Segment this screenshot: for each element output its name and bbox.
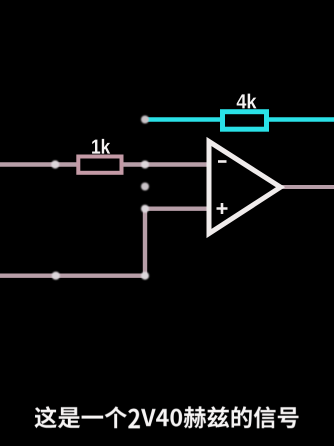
- node dot bottom left: [52, 272, 60, 280]
- 的: [254, 406, 276, 428]
- 个: [128, 409, 140, 429]
- wire: [0, 162, 208, 166]
- 2: [141, 409, 156, 426]
- node dot cyan wire start: [141, 116, 149, 124]
- 是: [82, 416, 104, 419]
- op-amp U1: [209, 142, 281, 234]
- label 1k: [92, 139, 110, 154]
- 信: [278, 407, 299, 428]
- node dot plus corner: [141, 205, 149, 213]
- 这: [58, 407, 80, 428]
- op-amp plus pin label: [217, 203, 228, 214]
- op-amp minus pin label: [218, 160, 227, 163]
- resistor R2 4k: [223, 112, 267, 130]
- 兹: [232, 406, 252, 428]
- resistor R1 1k: [78, 157, 121, 173]
- 一: [105, 406, 127, 428]
- 0: [184, 406, 206, 428]
- node dot bottom corner: [141, 272, 149, 280]
- node dot floating: [141, 183, 149, 191]
- 4: [170, 409, 182, 427]
- node dot left input: [51, 160, 59, 168]
- wire: [145, 117, 334, 122]
- label 4k: [237, 94, 257, 109]
- wire: [281, 185, 334, 189]
- V: [156, 409, 169, 426]
- 赫: [207, 406, 229, 428]
- node dot minus junction: [141, 161, 149, 169]
- wire: [0, 209, 208, 276]
- caption text: 这是一个2V40赫兹的信号: [34, 406, 298, 428]
